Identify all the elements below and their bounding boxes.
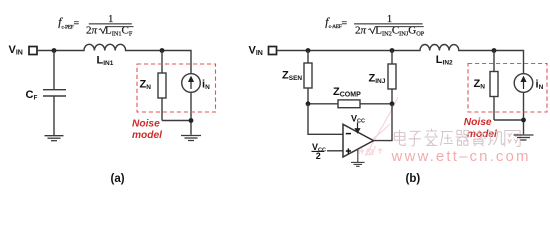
impedance ZCOMP on middle rail — [308, 100, 392, 108]
ground noise (b) — [514, 135, 534, 140]
port VIN (b) — [269, 47, 277, 55]
impedance ZSEN — [304, 51, 312, 104]
label (a) — [111, 173, 125, 185]
svg-text:2π: 2π — [355, 25, 367, 37]
watermark url — [391, 148, 529, 165]
node junction ZN (b) — [492, 48, 497, 53]
node junction mid-right — [390, 101, 395, 106]
svg-text:LIN1: LIN1 — [97, 55, 114, 67]
svg-text:model: model — [132, 130, 162, 141]
formula (a) — [58, 14, 133, 38]
port VIN (a) — [29, 47, 37, 55]
svg-text:model: model — [467, 129, 497, 140]
label VIN (b) — [249, 44, 263, 57]
ground noise (a) — [181, 136, 201, 141]
watermark chinese characters (pseudo-glyphs) — [394, 129, 520, 147]
op-amp input signs — [346, 134, 351, 154]
svg-text:ZCOMP: ZCOMP — [333, 86, 361, 99]
op-amp U1 — [343, 124, 374, 157]
svg-text:2π: 2π — [86, 25, 98, 37]
svg-text:Noise: Noise — [464, 117, 492, 128]
label iN (b) — [536, 79, 544, 92]
label VCC supply — [351, 113, 365, 124]
wire main rail (b) with inductor LIN2 — [277, 44, 524, 74]
svg-text:ZINJ: ZINJ — [369, 73, 386, 86]
svg-text:Noise: Noise — [132, 118, 160, 129]
ground op-amp — [351, 149, 365, 166]
svg-text:1: 1 — [387, 14, 392, 25]
impedance ZINJ — [388, 51, 396, 104]
noise model label (b) — [464, 117, 497, 140]
svg-text:ZSEN: ZSEN — [282, 70, 302, 83]
watermark swoosh — [352, 97, 398, 156]
capacitor CF — [43, 51, 66, 136]
ground CF — [45, 136, 64, 141]
node junction CF (a) — [52, 48, 57, 53]
label LIN2 — [436, 54, 453, 66]
svg-text:=: = — [74, 18, 80, 29]
noise model box (a) — [137, 64, 216, 112]
svg-text:LIN2: LIN2 — [436, 54, 453, 66]
svg-text:1: 1 — [108, 14, 113, 25]
wire VCC/2 to non-inverting input — [327, 150, 343, 152]
current source iN (a) — [182, 74, 201, 93]
node junction bottom (a) — [189, 118, 194, 123]
node junction ZN (a) — [160, 48, 165, 53]
node junction bottom (b) — [521, 118, 526, 123]
node junction ZSEN top — [306, 48, 311, 53]
svg-text:c-AEF: c-AEF — [329, 24, 342, 30]
svg-text:VIN: VIN — [9, 44, 23, 57]
label ZCOMP — [333, 86, 361, 99]
svg-text:c-PEF: c-PEF — [61, 24, 73, 30]
label VCC/2 — [312, 142, 326, 161]
svg-text:ZN: ZN — [140, 79, 152, 92]
label LIN1 — [97, 55, 114, 67]
formula (b) — [325, 14, 425, 38]
wire main rail (a) with inductor LIN1 — [37, 44, 191, 74]
label CF — [26, 89, 38, 102]
svg-text:iN: iN — [202, 79, 210, 92]
node junction ZINJ top — [390, 48, 395, 53]
vcc arrow into op-amp — [355, 122, 359, 132]
svg-text:iN: iN — [536, 79, 544, 92]
svg-text:(a): (a) — [111, 173, 125, 185]
label (b) — [406, 173, 421, 185]
svg-text:www.ett–cn.com: www.ett–cn.com — [391, 148, 529, 165]
wire bottom rail (a) — [162, 92, 191, 135]
label iN (a) — [202, 79, 210, 92]
label ZN (b) — [474, 78, 486, 91]
wire op-amp output — [374, 104, 393, 141]
svg-text:2: 2 — [316, 151, 321, 161]
wire feedback to inverting input — [308, 104, 343, 135]
svg-text:CF: CF — [26, 89, 38, 102]
noise model box (b) — [468, 64, 547, 113]
node junction mid-left — [306, 101, 311, 106]
svg-text:(b): (b) — [406, 173, 421, 185]
svg-text:VIN: VIN — [249, 44, 263, 57]
current source iN (b) — [514, 74, 533, 93]
svg-text:=: = — [342, 18, 348, 29]
noise model label (a) — [132, 118, 162, 141]
impedance ZN (a) — [158, 51, 166, 121]
label ZINJ — [369, 73, 386, 86]
svg-text:ZN: ZN — [474, 78, 486, 91]
label ZN (a) — [140, 79, 152, 92]
label VIN (a) — [9, 44, 23, 57]
impedance ZN (b) — [490, 51, 498, 121]
label ZSEN — [282, 70, 302, 83]
wire bottom rail (b) — [494, 92, 524, 134]
